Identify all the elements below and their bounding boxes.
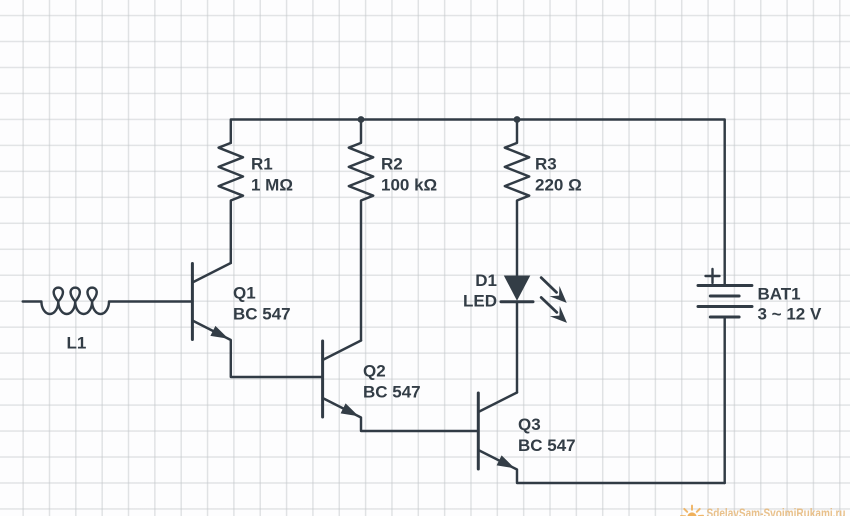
svg-text:BAT1: BAT1 (758, 285, 801, 304)
svg-text:BC 547: BC 547 (363, 383, 421, 402)
svg-text:Q3: Q3 (518, 415, 541, 434)
svg-text:BC 547: BC 547 (233, 305, 291, 324)
svg-text:R2: R2 (381, 155, 403, 174)
svg-text:R3: R3 (535, 155, 557, 174)
svg-text:3 ~ 12 V: 3 ~ 12 V (758, 305, 822, 324)
svg-text:Q1: Q1 (233, 284, 256, 303)
svg-text:D1: D1 (475, 271, 497, 290)
svg-text:100 kΩ: 100 kΩ (381, 176, 437, 195)
svg-text:Q2: Q2 (363, 362, 386, 381)
svg-text:LED: LED (463, 292, 497, 311)
svg-text:L1: L1 (67, 334, 87, 353)
svg-text:R1: R1 (251, 155, 273, 174)
svg-text:1 MΩ: 1 MΩ (251, 176, 293, 195)
svg-text:220 Ω: 220 Ω (535, 176, 582, 195)
svg-text:BC 547: BC 547 (518, 436, 576, 455)
svg-text:SdelaySam-SvoimiRukami.ru: SdelaySam-SvoimiRukami.ru (707, 505, 846, 516)
